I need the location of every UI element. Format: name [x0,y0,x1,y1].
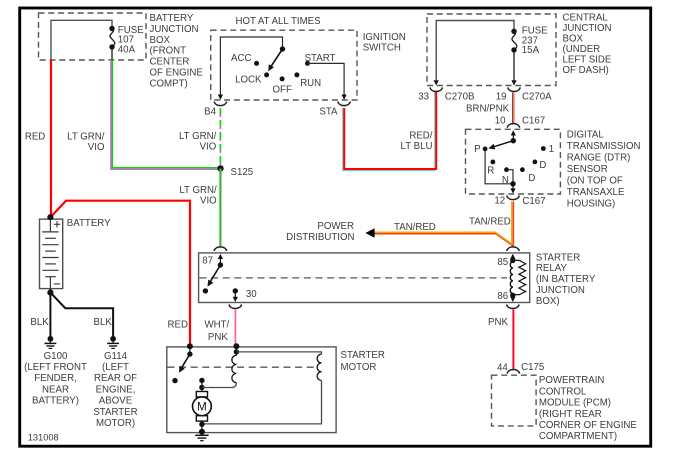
ground G100 [48,336,54,342]
svg-text:JUNCTION: JUNCTION [150,24,199,35]
ignition position OFF [280,76,285,81]
svg-text:COMPARTMENT): COMPARTMENT) [539,431,617,442]
svg-text:LT GRN/: LT GRN/ [67,131,105,142]
svg-text:STARTER: STARTER [536,252,580,263]
svg-text:(LEFT: (LEFT [102,362,129,373]
svg-text:N: N [502,175,509,186]
DTR position R [491,160,496,165]
svg-text:BOX: BOX [150,35,171,46]
starter relay coil resistor [513,260,526,295]
svg-text:15A: 15A [522,45,540,56]
ignition position LOCK [264,72,269,77]
battery minus sign [54,283,60,285]
wire BRN/PNK C270A to C167 pin 10 [512,93,514,125]
connector C270A [508,87,521,91]
svg-text:ACC: ACC [231,53,251,64]
DTR position P [483,147,488,152]
connector C167 pin 10 [507,124,520,128]
svg-text:BLK: BLK [94,317,113,328]
svg-text:G114: G114 [104,351,128,362]
connector C270B [430,87,443,91]
ground starter motor case [195,434,208,436]
starter relay pin 30 [233,288,238,293]
DTR wire P and N to pin 12 [485,149,513,184]
central junction box wire fuse 237 to C270A [513,50,515,80]
ignition switch lever [270,49,282,68]
svg-text:PNK: PNK [208,332,228,343]
svg-text:131008: 131008 [28,432,59,442]
svg-text:G100: G100 [44,351,68,362]
battery junction box [39,13,147,60]
svg-text:M: M [197,402,207,414]
connector C167 pin 12 [507,196,520,200]
svg-text:C175: C175 [521,362,544,373]
wire RED battery junction box to battery positive [50,60,52,217]
svg-text:JUNCTION: JUNCTION [563,23,612,34]
starter relay coil [510,262,512,294]
battery [40,219,63,289]
svg-text:ABOVE: ABOVE [99,396,133,407]
svg-text:SENSOR: SENSOR [567,164,608,175]
svg-text:POWERTRAIN: POWERTRAIN [539,375,605,386]
fuse F107 [109,26,114,31]
svg-text:CONTROL: CONTROL [539,386,587,397]
connector starter relay pin 87 [214,247,227,251]
svg-text:ENGINE,: ENGINE, [96,384,136,395]
svg-text:(UNDER: (UNDER [563,44,601,55]
connector C175 [507,370,520,374]
svg-text:R: R [487,166,494,177]
svg-text:44: 44 [497,362,508,373]
svg-text:VIO: VIO [200,195,217,206]
starter motor wire hold-in winding to ground side [202,381,322,424]
svg-text:SWITCH: SWITCH [363,43,401,54]
starter solenoid hold-in winding [317,354,321,380]
DTR position D [533,160,538,165]
starter relay pin 87 [219,259,221,265]
svg-text:LEFT SIDE: LEFT SIDE [563,55,612,66]
wire LT GRN/VIO splice S125 to starter relay pin 87 [221,168,223,246]
wire TAN/RED branch to power distribution [374,234,513,246]
svg-text:WHT/: WHT/ [204,319,229,330]
svg-text:86: 86 [497,291,508,302]
ignition switch wire to B4 [220,37,282,95]
svg-text:COMPT): COMPT) [150,78,188,89]
svg-text:RUN: RUN [300,78,321,89]
splice S125 [217,165,223,171]
svg-text:IGNITION: IGNITION [363,32,406,43]
wire RED/LT BLU ignition STA to connector C270B [343,92,435,171]
svg-text:DISTRIBUTION: DISTRIBUTION [286,232,354,243]
svg-text:BRN/PNK: BRN/PNK [466,104,510,115]
svg-text:C270A: C270A [522,91,552,102]
svg-text:BATTERY: BATTERY [150,13,194,24]
starter relay pin 85 [512,259,514,261]
ignition position START [305,61,310,66]
svg-text:HOUSING): HOUSING) [567,198,615,209]
svg-text:STARTER: STARTER [93,407,137,418]
svg-text:BLK: BLK [30,317,49,328]
DTR entry wire pin 10 [512,135,514,141]
svg-text:C167: C167 [522,116,545,127]
svg-text:BOX): BOX) [536,296,560,307]
starter relay contact lever [209,265,220,283]
starter relay pin 86 [510,293,515,298]
svg-text:START: START [305,53,336,64]
svg-text:D: D [539,160,546,171]
svg-text:BATTERY): BATTERY) [32,396,79,407]
svg-text:C167: C167 [522,196,545,207]
starter motor internal dashed line [168,366,318,368]
svg-text:(FRONT: (FRONT [150,46,187,57]
svg-text:C270B: C270B [445,91,475,102]
svg-text:1: 1 [549,144,554,155]
svg-text:RELAY: RELAY [536,263,568,274]
connector STA [338,102,351,106]
wire TAN/RED C167 pin 12 to starter relay pin 85 [511,202,513,245]
svg-text:JUNCTION: JUNCTION [536,285,585,296]
wire RED battery to starter motor [50,201,190,345]
starter motor M1 [201,388,203,392]
svg-text:40A: 40A [118,44,136,55]
svg-text:VIO: VIO [88,142,105,153]
connector starter relay pin 30 [229,305,242,309]
starter relay internal dashed line [200,277,508,279]
svg-text:P: P [474,144,480,155]
digital transmission range sensor box [466,129,561,194]
svg-text:PNK: PNK [488,317,508,328]
svg-text:LT BLU: LT BLU [401,141,433,152]
connector starter relay pin 85 [507,247,520,251]
wire BLK battery negative to G114 [50,293,113,336]
starter motor terminal dots [199,378,204,383]
svg-text:CENTRAL: CENTRAL [563,13,609,24]
svg-text:TAN/RED: TAN/RED [469,216,511,227]
svg-text:HOT AT ALL TIMES: HOT AT ALL TIMES [236,16,322,27]
svg-text:VIO: VIO [200,141,217,152]
connector starter relay pin 86 [507,305,520,309]
DTR position 1 [541,146,546,151]
wire LT GRN/VIO fuse 107 to splice S125 [111,60,221,169]
svg-text:LOCK: LOCK [235,74,262,85]
svg-text:OF ENGINE: OF ENGINE [150,68,204,79]
svg-text:STA: STA [319,107,338,118]
svg-text:10: 10 [495,115,506,126]
svg-text:S125: S125 [231,167,254,178]
starter solenoid contact [172,378,177,383]
svg-text:MOTOR: MOTOR [341,362,377,373]
starter motor box [167,347,336,433]
connector B4 [214,102,227,106]
wire LT GRN/VIO ignition B4 to splice S125 [219,108,221,166]
svg-text:DIGITAL: DIGITAL [567,130,605,141]
DTR selector pivot [511,138,516,143]
svg-text:RED: RED [25,131,45,142]
battery positive terminal node [47,214,53,220]
svg-text:BATTERY: BATTERY [67,218,111,229]
svg-text:(IN BATTERY: (IN BATTERY [536,274,596,285]
central junction box wire to C270B [436,21,514,81]
svg-text:TRANSMISSION: TRANSMISSION [567,141,641,152]
svg-text:OFF: OFF [273,85,292,96]
starter solenoid pull-in winding [235,352,237,355]
svg-text:12: 12 [494,196,505,207]
svg-text:(ON TOP OF: (ON TOP OF [567,176,623,187]
svg-text:85: 85 [497,257,508,268]
central junction box [427,14,556,86]
svg-text:FENDER,: FENDER, [34,373,77,384]
ground G114 [110,336,116,342]
svg-text:REAR OF: REAR OF [94,373,137,384]
svg-text:CORNER OF ENGINE: CORNER OF ENGINE [539,420,637,431]
wire WHT/PNK relay pin 30 to starter motor [234,310,236,346]
wire BLK battery negative to G100 [49,289,51,336]
svg-text:LT GRN/: LT GRN/ [179,185,217,196]
DTR position D (manual) [520,167,525,172]
svg-text:TAN/RED: TAN/RED [394,222,436,233]
DTR exit junction dot [510,181,515,186]
wire fuse 107 feed inside battery junction box [51,20,112,60]
svg-text:RED: RED [168,319,188,330]
DTR exit wire pin 12 [512,184,514,189]
DTR selector lever [492,141,513,148]
svg-text:LT GRN/: LT GRN/ [179,131,217,142]
svg-text:D: D [528,173,535,184]
svg-text:30: 30 [246,289,257,300]
power distribution arrow [365,228,374,238]
starter solenoid winding input (WHT/PNK) [233,343,239,349]
battery negative terminal node [47,290,53,296]
svg-text:NEAR: NEAR [42,384,69,395]
starter motor wire to hold-in winding [236,352,321,354]
svg-text:BOX: BOX [563,34,584,45]
svg-text:OF DASH): OF DASH) [563,65,609,76]
svg-text:TRANSAXLE: TRANSAXLE [567,187,625,198]
powertrain control module box [492,375,537,426]
ignition position ACC [254,61,259,66]
svg-text:19: 19 [496,91,507,102]
DTR position N [504,167,509,172]
starter relay box [199,253,530,303]
svg-text:CENTER: CENTER [150,57,190,68]
starter solenoid contact input (RED) [187,343,193,349]
svg-text:POWER: POWER [317,221,354,232]
svg-text:STARTER: STARTER [341,350,385,361]
svg-text:MOTOR): MOTOR) [96,418,135,429]
starter solenoid contact lever [181,354,190,369]
ignition position RUN [294,72,299,77]
svg-text:87: 87 [202,255,213,266]
svg-text:B4: B4 [204,107,216,118]
battery plus sign [54,223,60,225]
svg-text:(RIGHT REAR: (RIGHT REAR [539,409,602,420]
fuse F237 [511,29,516,34]
svg-text:(LEFT FRONT: (LEFT FRONT [24,362,87,373]
svg-text:MODULE (PCM): MODULE (PCM) [539,398,611,409]
svg-text:RANGE (DTR): RANGE (DTR) [567,153,631,164]
ignition switch pivot [280,46,285,51]
ignition switch wire START to STA [308,63,345,94]
svg-text:33: 33 [418,91,429,102]
ignition switch box [211,30,357,100]
starter relay contact 30 [203,288,208,293]
svg-text:RED/: RED/ [409,131,432,142]
wire PNK relay pin 86 to PCM [512,310,514,370]
